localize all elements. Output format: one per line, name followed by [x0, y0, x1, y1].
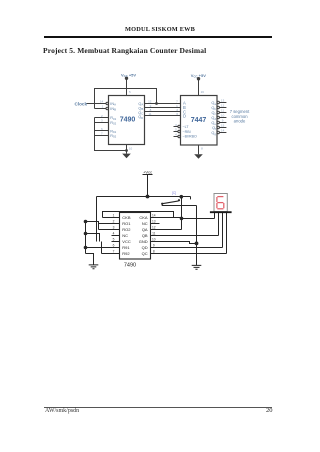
- svg-text:R91: R91: [122, 245, 130, 250]
- svg-text:RO2: RO2: [122, 227, 131, 232]
- svg-text:5: 5: [129, 90, 131, 94]
- svg-text:10: 10: [221, 114, 225, 118]
- svg-text:Qg: Qg: [211, 131, 216, 136]
- svg-text:7: 7: [113, 249, 115, 253]
- svg-text:INB: INB: [110, 107, 116, 112]
- svg-text:QA: QA: [142, 227, 148, 232]
- svg-text:7490: 7490: [124, 262, 136, 268]
- svg-text:4: 4: [113, 231, 115, 235]
- svg-text:R92: R92: [122, 251, 130, 256]
- svg-text:11: 11: [152, 231, 156, 235]
- svg-text:2: 2: [113, 219, 115, 223]
- svg-text:[C]: [C]: [172, 191, 177, 195]
- svg-text:11: 11: [221, 109, 224, 113]
- svg-text:VCC +5V: VCC +5V: [121, 72, 136, 78]
- svg-text:QB: QB: [142, 233, 148, 238]
- svg-text:~RBI: ~RBI: [183, 130, 191, 134]
- svg-text:QD: QD: [138, 115, 143, 120]
- svg-text:NC: NC: [122, 233, 128, 238]
- svg-text:~BI/RBO: ~BI/RBO: [183, 135, 197, 139]
- svg-text:9: 9: [222, 119, 224, 123]
- svg-text:14: 14: [152, 213, 156, 217]
- svg-text:12: 12: [152, 225, 156, 229]
- svg-text:3: 3: [113, 225, 115, 229]
- svg-text:7: 7: [176, 99, 178, 103]
- svg-text:1: 1: [113, 213, 115, 217]
- svg-text:7447: 7447: [191, 117, 207, 124]
- svg-text:16: 16: [201, 90, 205, 94]
- svg-text:anode: anode: [234, 119, 246, 124]
- svg-text:NC: NC: [142, 221, 148, 226]
- svg-text:14: 14: [100, 100, 104, 104]
- svg-text:15: 15: [221, 124, 225, 128]
- svg-text:11: 11: [148, 112, 151, 116]
- svg-text:6: 6: [113, 243, 115, 247]
- svg-text:R92: R92: [110, 134, 116, 139]
- svg-text:9: 9: [153, 243, 155, 247]
- svg-text:Clock: Clock: [75, 101, 88, 106]
- svg-text:4: 4: [175, 132, 177, 136]
- svg-text:VCC +5V: VCC +5V: [191, 73, 206, 79]
- svg-text:5: 5: [113, 237, 115, 241]
- svg-text:~LT: ~LT: [183, 125, 190, 129]
- svg-text:VCC: VCC: [122, 239, 131, 244]
- svg-text:14: 14: [221, 129, 225, 133]
- svg-text:+Vcc: +Vcc: [143, 169, 152, 174]
- svg-text:R02: R02: [110, 121, 116, 126]
- svg-text:CKA: CKA: [139, 215, 148, 220]
- svg-text:12: 12: [148, 99, 152, 103]
- svg-text:8: 8: [201, 147, 203, 151]
- svg-text:CKB: CKB: [122, 215, 131, 220]
- svg-text:D: D: [183, 113, 186, 118]
- svg-text:12: 12: [221, 104, 225, 108]
- svg-text:13: 13: [221, 99, 225, 103]
- svg-text:1: 1: [102, 105, 104, 109]
- svg-text:8: 8: [153, 249, 155, 253]
- svg-text:10: 10: [152, 237, 156, 241]
- svg-text:GND: GND: [139, 239, 148, 244]
- svg-text:QD: QD: [142, 245, 148, 250]
- svg-text:13: 13: [152, 219, 156, 223]
- svg-text:RO1: RO1: [122, 221, 131, 226]
- svg-text:QC: QC: [142, 251, 148, 256]
- svg-text:7490: 7490: [120, 116, 136, 123]
- svg-text:10: 10: [129, 147, 133, 151]
